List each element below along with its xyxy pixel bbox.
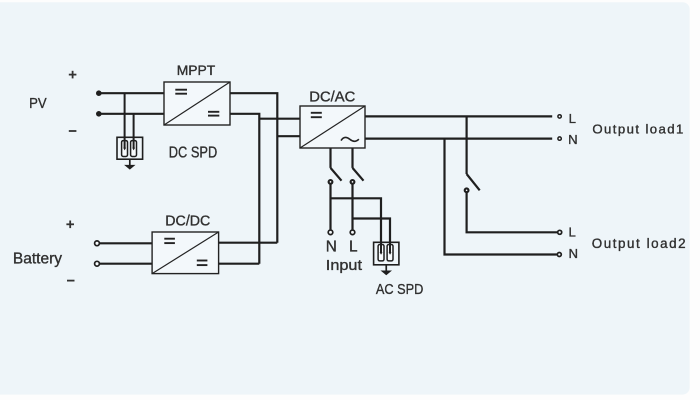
svg-text:PV: PV	[29, 96, 47, 112]
svg-text:Input: Input	[326, 257, 363, 274]
svg-text:L: L	[569, 111, 576, 126]
svg-text:Output load1: Output load1	[592, 122, 684, 137]
svg-text:DC SPD: DC SPD	[169, 144, 217, 161]
svg-text:L: L	[569, 225, 576, 240]
svg-text:DC/DC: DC/DC	[165, 214, 210, 230]
svg-text:N: N	[568, 132, 578, 147]
svg-text:N: N	[326, 238, 337, 255]
svg-text:Output load2: Output load2	[592, 236, 687, 251]
svg-text:AC SPD: AC SPD	[376, 281, 423, 298]
svg-text:DC/AC: DC/AC	[309, 89, 355, 105]
svg-text:L: L	[349, 238, 358, 255]
svg-text:N: N	[569, 246, 579, 261]
svg-text:MPPT: MPPT	[177, 62, 216, 78]
svg-text:Battery: Battery	[13, 250, 62, 267]
